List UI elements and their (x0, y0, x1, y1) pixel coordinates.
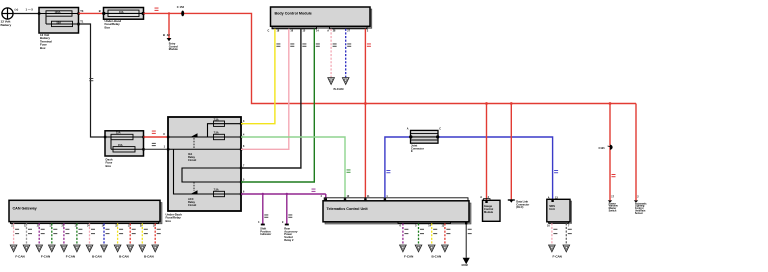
svg-text:16: 16 (290, 29, 293, 32)
wire blue dashed gateway B-CAN 8 (103, 223, 105, 244)
svg-text:T1: T1 (80, 19, 84, 23)
svg-text:B-CAN: B-CAN (144, 255, 154, 259)
wire code (green) (347, 170, 351, 173)
svg-text:15A: 15A (118, 144, 123, 147)
svg-text:Box: Box (105, 25, 111, 29)
pins under-dash box right (240, 123, 242, 125)
Body Control Module box (271, 7, 372, 28)
svg-text:B: B (163, 33, 165, 37)
svg-text:F-CAN: F-CAN (66, 255, 75, 259)
TCU top pins (325, 198, 327, 200)
gauge control module (480, 196, 500, 221)
wire code (blue) (386, 170, 390, 173)
connector arrow B-CAN pink (328, 78, 335, 85)
connector arrow (139, 245, 146, 252)
connector B 42 (163, 33, 178, 51)
connector arrow (428, 245, 435, 252)
fuse 15A No.1 (105, 132, 144, 140)
svg-text:F-CAN: F-CAN (553, 255, 562, 259)
pin right bottom dash fuse box (142, 148, 144, 150)
svg-text:Telematics Control Unit: Telematics Control Unit (327, 207, 369, 211)
wire black TCU ground (465, 222, 467, 258)
wire pink dashed gateway F-CAN 1 (13, 223, 15, 244)
wire red main feed (144, 13, 637, 103)
svg-text:Box: Box (40, 46, 46, 50)
svg-text:6: 6 (243, 190, 245, 193)
svg-text:(DLC): (DLC) (516, 205, 523, 209)
svg-text:16: 16 (547, 225, 550, 228)
fuse 10A (104, 10, 144, 16)
wire code (288, 215, 292, 218)
svg-text:C: C (439, 128, 441, 131)
connector arrow (152, 245, 159, 252)
svg-text:1: 1 (164, 145, 166, 149)
wire code (black vertical) (89, 78, 93, 81)
svg-text:A: A (548, 196, 550, 199)
wire blue dashed BCM to B-CAN (345, 29, 347, 77)
connector C121 (599, 145, 613, 150)
svg-text:7.5A: 7.5A (214, 189, 219, 192)
wire gray dashed gateway F-CAN 2 (26, 223, 28, 244)
junction dot B42 (168, 12, 170, 14)
svg-text:Box: Box (106, 164, 112, 168)
svg-text:Box: Box (166, 219, 172, 223)
wire code (purple) (312, 189, 316, 192)
pin left dash fuse box (104, 136, 106, 138)
terminal rear accessory power socket relay 2 (282, 221, 298, 242)
joint connector box (407, 128, 441, 154)
svg-text:C: C (268, 29, 270, 32)
svg-text:Circuit: Circuit (188, 158, 196, 162)
wire purple dashed gateway F-CAN 5 (63, 223, 65, 244)
svg-text:7.5A: 7.5A (214, 132, 219, 135)
svg-text:A: A (407, 128, 409, 131)
wire yellow dashed TCU B-CAN (431, 223, 433, 244)
pin battery side (38, 12, 40, 14)
fuse No.9 7.5A (214, 132, 225, 140)
svg-text:Body Control Module: Body Control Module (275, 12, 312, 16)
wire code (red) (152, 131, 156, 134)
wire pink dashed BCM to B-CAN (330, 29, 332, 77)
SRS top pin (548, 196, 559, 202)
wire red drop to gauge control module (486, 104, 488, 201)
wire red dashed gateway B-CAN 10 (129, 223, 131, 244)
connector arrow (114, 245, 121, 252)
connector arrow (563, 245, 570, 252)
wire purple under-dash to TCU (241, 193, 326, 195)
svg-text:6: 6 (400, 225, 402, 228)
svg-text:1 — 5: 1 — 5 (26, 8, 34, 12)
wire red dashed TCU B-CAN (444, 223, 446, 244)
connector arrow (127, 245, 134, 252)
svg-text:C 153: C 153 (177, 5, 185, 9)
fuse 15A No.2 (111, 137, 144, 152)
svg-text:Module: Module (484, 210, 494, 214)
wire red fuse box to under-hood box (79, 12, 104, 14)
fuse No.4 7.5A (214, 189, 225, 197)
svg-text:3: 3 (243, 120, 245, 123)
junction dot red bus (364, 102, 367, 105)
wire code (152, 143, 156, 146)
wire yellow dashed gateway B-CAN 9 (117, 223, 119, 244)
ground G502 (463, 258, 470, 264)
relay contact IG1 (188, 133, 198, 162)
junction dot purple 2 (286, 193, 288, 195)
wire red dashed gateway B-CAN 12 (154, 223, 156, 244)
pin T3 (77, 9, 84, 15)
fuse box: 12 Volt Battery Terminal Fuse Box (39, 8, 79, 50)
svg-text:7: 7 (568, 225, 570, 228)
wire black BCM to under-dash (241, 29, 301, 168)
internal wire relay coil feed (168, 148, 241, 150)
wire code (red) (612, 174, 616, 177)
svg-text:5: 5 (415, 225, 417, 228)
wire purple dashed TCU F-CAN (402, 223, 404, 244)
BCM connector bracket C (268, 27, 317, 33)
svg-text:C121: C121 (599, 146, 606, 150)
svg-text:2: 2 (367, 29, 369, 32)
wire red drop to power window master switch (609, 104, 611, 201)
wire thin to under-dash box lower (144, 148, 169, 150)
svg-text:G502: G502 (462, 263, 469, 267)
svg-text:28: 28 (333, 29, 336, 32)
wire pink BCM to under-dash (241, 29, 289, 150)
svg-text:4: 4 (321, 195, 323, 198)
internal wire IG1 row (168, 136, 241, 138)
connector arrow (101, 245, 108, 252)
connector arrow B-CAN blue (342, 78, 349, 85)
fuse No.8 7.5A (214, 118, 225, 126)
svg-text:Switch: Switch (609, 210, 617, 213)
relay contact ACC (188, 182, 198, 207)
svg-text:F-CAN: F-CAN (15, 255, 24, 259)
svg-text:18: 18 (277, 29, 280, 32)
svg-text:7.5A: 7.5A (214, 118, 219, 121)
svg-text:5: 5 (243, 178, 245, 181)
svg-text:15A: 15A (116, 132, 121, 135)
BCM connector bracket A (327, 27, 367, 33)
wire green dashed gateway F-CAN 6 (76, 223, 78, 244)
connector arrow (442, 245, 449, 252)
CAN Gateway box (9, 200, 162, 224)
CAN gateway bottom bracket (10, 222, 158, 224)
wire code (302, 44, 306, 47)
svg-text:T3: T3 (80, 9, 84, 13)
wire yellow dashed gateway B-CAN 11 (141, 223, 143, 244)
wire red dash fuse to under-dash box (144, 136, 169, 138)
svg-text:Sensor: Sensor (635, 212, 643, 215)
wire code (333, 44, 337, 47)
internal wire lower feed (174, 149, 242, 194)
svg-text:100A: 100A (55, 11, 61, 14)
junction dot (485, 102, 488, 105)
pin right under-hood box (142, 12, 145, 15)
svg-text:Module: Module (169, 47, 179, 51)
internal wire accessory L path (182, 168, 241, 182)
connector arrow (86, 245, 93, 252)
wire red drop to automatic lighting (635, 104, 637, 201)
svg-text:Circuit: Circuit (188, 203, 196, 207)
battery BT1 (1, 8, 14, 27)
wire code (367, 44, 371, 47)
wire green BCM to under-dash (241, 29, 314, 182)
connector arrow (74, 245, 81, 252)
pins under-dash box left (167, 136, 169, 138)
svg-text:17: 17 (611, 196, 614, 199)
svg-text:Indicator: Indicator (260, 232, 271, 236)
svg-text:B: B (99, 9, 101, 13)
svg-text:A: A (327, 29, 329, 32)
svg-text:A: A (480, 196, 482, 199)
svg-text:15: 15 (303, 29, 306, 32)
svg-text:E: E (411, 149, 413, 153)
wire purple drop rear socket relay (286, 194, 288, 225)
wire code (316, 44, 320, 47)
TCU top connector bracket (324, 198, 468, 201)
connector arrow (549, 245, 556, 252)
svg-text:42: 42 (167, 33, 170, 37)
junction dot (510, 102, 513, 105)
SRS bottom connector bracket (549, 222, 569, 224)
junction dot (609, 102, 612, 105)
svg-text:F-CAN: F-CAN (404, 255, 413, 259)
wire gray dashed SRS F-CAN (565, 223, 567, 244)
wire code (347, 44, 351, 47)
wire red drop to B42 (168, 13, 170, 38)
svg-text:B-CAN: B-CAN (432, 255, 442, 259)
svg-text:Relay 2: Relay 2 (284, 238, 294, 242)
under-dash fuse/relay box (166, 117, 242, 223)
terminal power window master switch (608, 196, 618, 213)
connector arrow (415, 245, 422, 252)
fuse A (100A) (39, 11, 79, 16)
fuse box dash (left small) (105, 131, 144, 168)
svg-text:F-CAN: F-CAN (41, 255, 50, 259)
svg-text:Connector: Connector (411, 146, 424, 150)
pin T1 (77, 19, 84, 25)
wire battery to fuse box (13, 13, 39, 15)
svg-text:27: 27 (347, 29, 350, 32)
svg-text:7: 7 (243, 164, 245, 167)
wire purple drop shift indicator (262, 194, 264, 225)
connector arrow (61, 245, 68, 252)
connector DLC terminal (508, 200, 529, 210)
wire blue TCU to SRS (385, 137, 553, 199)
svg-text:9: 9 (282, 221, 284, 224)
svg-text:Unit: Unit (549, 207, 555, 211)
under-hood fuse/relay box (104, 8, 144, 30)
wire pink dashed SRS F-CAN (551, 223, 553, 244)
connector arrow (10, 245, 17, 252)
svg-text:2: 2 (637, 196, 639, 199)
terminal shift position indicator (258, 221, 271, 236)
wire red BCM to TCU (364, 29, 366, 198)
pin right top dash fuse box (142, 136, 144, 138)
svg-text:50A: 50A (57, 22, 62, 25)
connector arrow (23, 245, 30, 252)
wire code (red) (155, 8, 159, 11)
svg-text:B-CAN: B-CAN (92, 255, 102, 259)
connector arrow (400, 245, 407, 252)
wire yellow BCM to under-dash (241, 29, 275, 124)
junction dot purple 1 (262, 193, 264, 195)
svg-text:C: C (163, 132, 165, 136)
wire green dashed gateway F-CAN 4 (51, 223, 53, 244)
internal branch to fuse No.8 (208, 124, 242, 137)
pin left under-hood box (102, 12, 105, 15)
Telematics Control Unit box (323, 201, 471, 224)
connector C 153 (177, 5, 185, 16)
svg-text:B-CAN: B-CAN (334, 87, 345, 91)
svg-text:(+): (+) (15, 8, 19, 12)
svg-text:8: 8 (243, 145, 245, 148)
fuse B (50A) (46, 14, 79, 27)
wire pink dashed gateway B-CAN 7 (89, 223, 91, 244)
svg-text:Battery: Battery (1, 23, 12, 27)
wire light green under-dash to TCU (241, 137, 345, 198)
svg-text:14: 14 (316, 29, 319, 32)
svg-text:CAN Gateway: CAN Gateway (13, 206, 38, 210)
svg-text:10A: 10A (119, 11, 124, 14)
wire purple dashed gateway F-CAN 3 (38, 223, 40, 244)
wire black 50A fuse output (79, 24, 106, 137)
svg-text:B-CAN: B-CAN (119, 255, 129, 259)
wire red drop to DLC (510, 104, 512, 201)
svg-text:4: 4 (243, 133, 245, 136)
terminal automatic lighting control unit (634, 196, 647, 215)
TCU bottom connector bracket (398, 222, 451, 224)
SRS unit box (547, 199, 572, 223)
wire code (blue right) (554, 170, 558, 173)
wire code (276, 44, 280, 47)
svg-text:4: 4 (258, 221, 260, 224)
wire green dashed TCU F-CAN (418, 223, 420, 244)
connector arrow (36, 245, 43, 252)
wire purple into TCU pin (325, 194, 327, 198)
connector arrow (49, 245, 56, 252)
wire code (290, 44, 294, 47)
wire code (264, 215, 268, 218)
